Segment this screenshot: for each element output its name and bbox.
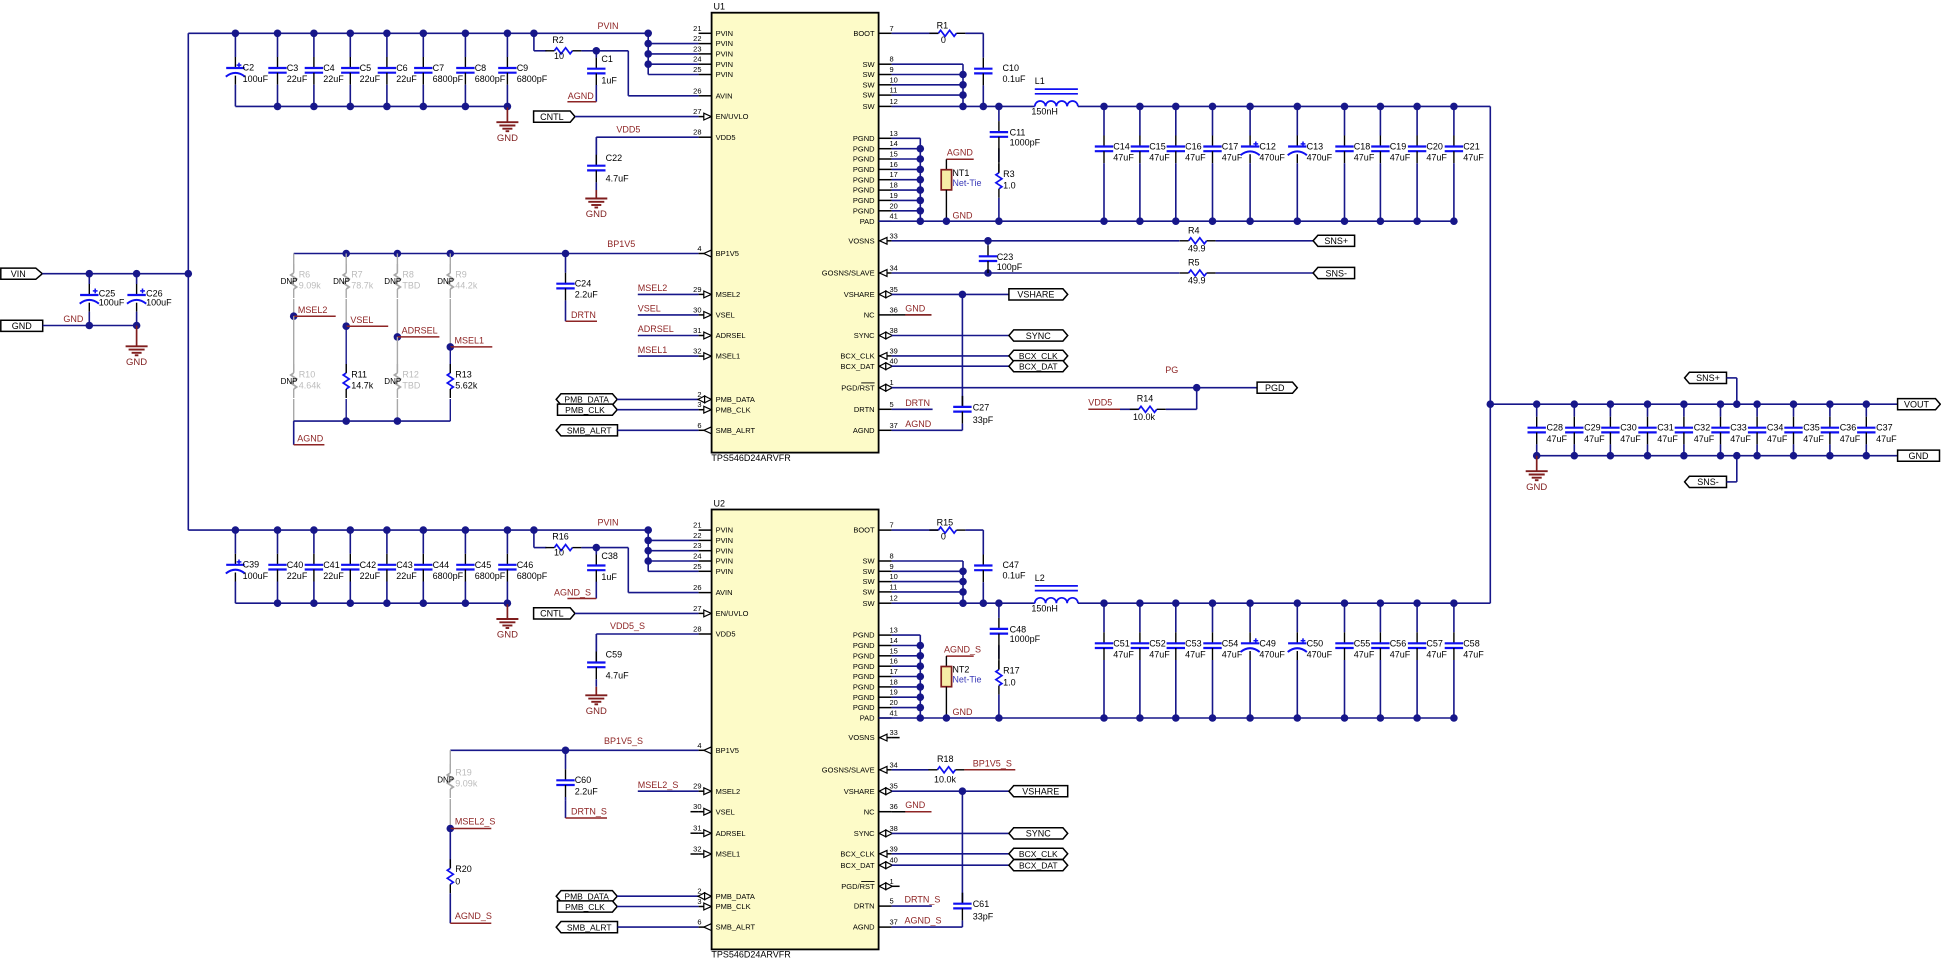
svg-text:PVIN: PVIN — [716, 70, 734, 79]
net label DRTN_S — [892, 905, 932, 907]
svg-text:VSEL: VSEL — [716, 311, 735, 320]
svg-text:470uF: 470uF — [1307, 153, 1333, 163]
svg-text:SMB_ALRT: SMB_ALRT — [567, 426, 612, 436]
resistor R13 — [449, 347, 451, 372]
pin 33 VOSNS — [879, 240, 892, 242]
pin 38 SYNC — [879, 335, 892, 337]
capacitor C2 — [234, 33, 236, 57]
svg-text:DRTN: DRTN — [571, 310, 596, 320]
svg-text:6800pF: 6800pF — [433, 571, 464, 581]
svg-text:25: 25 — [693, 65, 701, 74]
svg-text:17: 17 — [890, 667, 898, 676]
svg-text:MSEL2: MSEL2 — [716, 787, 741, 796]
capacitor C47 — [982, 530, 984, 554]
svg-text:4.7uF: 4.7uF — [606, 174, 630, 184]
pin 16 PGND — [879, 168, 892, 170]
svg-text:PGND: PGND — [853, 662, 875, 671]
port flag BCX_CLK — [1009, 848, 1068, 859]
port flag SNS+ — [1313, 235, 1355, 246]
wire SW bus — [892, 560, 963, 562]
port flag CNTL — [534, 608, 575, 619]
svg-text:C42: C42 — [360, 560, 377, 570]
svg-text:39: 39 — [890, 346, 898, 355]
svg-text:47uF: 47uF — [1657, 434, 1678, 444]
svg-text:PMB_DATA: PMB_DATA — [716, 395, 755, 404]
port flag BCX_DAT — [1009, 361, 1068, 372]
svg-text:VSEL: VSEL — [350, 315, 373, 325]
svg-text:35: 35 — [890, 782, 898, 791]
svg-text:C3: C3 — [287, 63, 299, 73]
capacitor C34 — [1756, 404, 1758, 417]
net label VSEL — [638, 314, 699, 316]
svg-text:AGND: AGND — [853, 923, 875, 932]
svg-text:PGND: PGND — [853, 683, 875, 692]
svg-text:DNP: DNP — [333, 277, 350, 286]
capacitor C16 — [1175, 106, 1177, 135]
pin 28 VDD5 — [699, 136, 712, 138]
wire network bottom rail — [294, 420, 451, 422]
wire AGND_S — [892, 926, 963, 928]
port flag CNTL — [534, 111, 575, 122]
svg-text:C61: C61 — [973, 899, 990, 909]
svg-text:1: 1 — [890, 378, 894, 387]
wire PVIN to R16 — [533, 530, 535, 548]
svg-text:R20: R20 — [455, 864, 472, 874]
capacitor C20 — [1416, 106, 1418, 135]
svg-text:SYNC: SYNC — [854, 331, 875, 340]
svg-text:VOSNS: VOSNS — [848, 733, 874, 742]
net label DRTN_S — [565, 801, 567, 818]
svg-text:100uF: 100uF — [243, 74, 269, 84]
svg-text:C59: C59 — [606, 650, 623, 660]
svg-text:SW: SW — [863, 577, 876, 586]
svg-text:6800pF: 6800pF — [475, 571, 506, 581]
svg-text:22uF: 22uF — [287, 571, 308, 581]
svg-text:TBD: TBD — [402, 281, 421, 291]
svg-text:30: 30 — [693, 305, 701, 314]
svg-text:C31: C31 — [1657, 423, 1674, 433]
capacitor C36 — [1829, 404, 1831, 417]
svg-text:47uF: 47uF — [1113, 153, 1134, 163]
svg-text:40: 40 — [890, 357, 898, 366]
svg-text:ADRSEL: ADRSEL — [638, 324, 674, 334]
svg-text:6: 6 — [697, 918, 701, 927]
pin 19 PGND — [879, 696, 892, 698]
svg-text:C7: C7 — [433, 63, 445, 73]
wire GND flag to caps — [43, 325, 137, 327]
svg-text:47uF: 47uF — [1730, 434, 1751, 444]
svg-text:EN/UVLO: EN/UVLO — [716, 609, 749, 618]
pin 1 PGD/RST — [879, 885, 892, 887]
svg-text:21: 21 — [693, 24, 701, 33]
port flag SYNC — [1009, 828, 1068, 839]
svg-text:0.1uF: 0.1uF — [1003, 571, 1027, 581]
pin 30 VSEL — [699, 811, 712, 813]
pin 27 EN/UVLO — [699, 612, 712, 614]
net label AGND_S — [595, 582, 597, 599]
capacitor C60 — [565, 750, 567, 769]
wire SW rail — [892, 602, 1035, 604]
svg-text:47uF: 47uF — [1584, 434, 1605, 444]
svg-text:PVIN: PVIN — [716, 50, 734, 59]
wire VIN to input bus — [42, 273, 188, 275]
resistor R9 (DNP) — [449, 254, 451, 273]
svg-text:470uF: 470uF — [1259, 650, 1285, 660]
svg-text:38: 38 — [890, 824, 898, 833]
svg-text:10: 10 — [890, 572, 898, 581]
resistor R11 — [345, 326, 347, 372]
port flag PGD — [1257, 382, 1297, 393]
svg-text:100pF: 100pF — [997, 262, 1023, 272]
svg-text:GND: GND — [586, 706, 607, 717]
svg-text:C14: C14 — [1113, 142, 1130, 152]
pin 32 MSEL1 — [699, 355, 712, 357]
svg-text:32: 32 — [693, 845, 701, 854]
svg-text:C11: C11 — [1010, 128, 1026, 138]
svg-text:PGD: PGD — [1265, 383, 1285, 393]
pin 4 BP1V5 — [699, 749, 712, 751]
wire — [581, 50, 596, 52]
node MSEL2 — [290, 312, 298, 320]
node MSEL1 — [447, 343, 455, 351]
svg-text:C9: C9 — [517, 63, 529, 73]
resistor R2 — [554, 48, 572, 54]
net label GND — [892, 811, 932, 813]
resistor R3 — [998, 148, 1000, 173]
capacitor C26 — [136, 274, 138, 284]
wire PVIN to R2 — [533, 33, 535, 51]
svg-text:47uF: 47uF — [1463, 153, 1484, 163]
port flag GND — [1898, 450, 1940, 461]
svg-text:PGND: PGND — [853, 186, 875, 195]
svg-text:23: 23 — [693, 541, 701, 550]
capacitor C22 — [595, 137, 597, 155]
svg-text:PVIN: PVIN — [598, 518, 619, 528]
svg-text:AGND: AGND — [947, 148, 974, 158]
svg-text:1.0: 1.0 — [1003, 677, 1016, 687]
pin 36 NC — [879, 314, 892, 316]
svg-text:BOOT: BOOT — [853, 29, 875, 38]
port flag BCX_DAT — [1009, 860, 1068, 871]
wire GOSNS to R5 — [892, 272, 1180, 274]
svg-text:TPS546D24ARVFR: TPS546D24ARVFR — [711, 950, 791, 960]
svg-text:AGND: AGND — [568, 91, 595, 101]
resistor R4 — [1189, 238, 1207, 244]
svg-text:26: 26 — [693, 583, 701, 592]
resistor R15 — [892, 529, 939, 531]
wire — [581, 547, 596, 549]
svg-text:VSHARE: VSHARE — [844, 290, 875, 299]
pin 4 BP1V5 — [699, 253, 712, 255]
svg-text:TPS546D24ARVFR: TPS546D24ARVFR — [711, 453, 791, 463]
pin 25 PVIN — [699, 570, 712, 572]
svg-text:SNS-: SNS- — [1325, 268, 1347, 278]
capacitor C7 — [422, 33, 424, 57]
pin 15 PGND — [879, 655, 892, 657]
svg-text:3: 3 — [697, 400, 701, 409]
svg-text:PVIN: PVIN — [716, 546, 734, 555]
svg-text:PMB_CLK: PMB_CLK — [716, 405, 751, 414]
capacitor C51 — [1103, 603, 1105, 632]
pin 33 VOSNS — [879, 737, 892, 739]
pin 40 BCX_DAT — [879, 365, 892, 367]
pin 28 VDD5 — [699, 633, 712, 635]
svg-text:C57: C57 — [1426, 638, 1443, 648]
svg-text:40: 40 — [890, 856, 898, 865]
svg-text:24: 24 — [693, 55, 701, 64]
svg-text:SW: SW — [863, 80, 876, 89]
svg-text:0: 0 — [455, 876, 460, 886]
wire pin stub — [691, 832, 699, 834]
svg-text:NC: NC — [864, 807, 875, 816]
svg-text:6800pF: 6800pF — [475, 74, 506, 84]
pin 39 BCX_CLK — [879, 853, 892, 855]
resistor R7 (DNP) — [345, 254, 347, 273]
wire SYNC phase 2 — [892, 832, 1009, 834]
svg-text:33pF: 33pF — [973, 415, 994, 425]
wire input cap bottom rail — [235, 105, 507, 107]
svg-text:GND: GND — [497, 630, 518, 641]
svg-text:47uF: 47uF — [1840, 434, 1861, 444]
svg-text:1000pF: 1000pF — [1010, 634, 1041, 644]
svg-text:6: 6 — [697, 421, 701, 430]
svg-text:GND: GND — [586, 209, 607, 220]
svg-text:13: 13 — [890, 626, 898, 635]
svg-text:37: 37 — [890, 918, 898, 927]
wire — [1216, 240, 1314, 242]
pin 9 SW — [879, 74, 892, 76]
svg-text:C47: C47 — [1003, 560, 1020, 570]
svg-text:GND: GND — [905, 800, 926, 810]
svg-text:150nH: 150nH — [1031, 603, 1058, 613]
svg-text:15: 15 — [890, 646, 898, 655]
svg-text:AGND_S: AGND_S — [905, 916, 942, 926]
svg-text:36: 36 — [890, 305, 898, 314]
svg-text:SW: SW — [863, 557, 876, 566]
pin 20 PGND — [879, 210, 892, 212]
svg-text:C28: C28 — [1547, 423, 1564, 433]
svg-text:100uF: 100uF — [243, 571, 269, 581]
svg-text:PGND: PGND — [853, 134, 875, 143]
ground symbol — [506, 107, 508, 122]
svg-text:BCX_CLK: BCX_CLK — [840, 849, 874, 858]
svg-text:C43: C43 — [396, 560, 413, 570]
svg-text:SNS+: SNS+ — [1696, 373, 1720, 383]
svg-text:27: 27 — [693, 107, 701, 116]
svg-text:6800pF: 6800pF — [517, 571, 548, 581]
svg-text:SNS+: SNS+ — [1324, 236, 1348, 246]
svg-text:VSHARE: VSHARE — [1022, 787, 1059, 797]
svg-text:24: 24 — [693, 552, 701, 561]
svg-text:22uF: 22uF — [360, 571, 381, 581]
svg-text:38: 38 — [890, 326, 898, 335]
wire — [618, 429, 699, 431]
svg-text:GND: GND — [63, 314, 84, 324]
svg-text:8: 8 — [890, 552, 894, 561]
capacitor C32 — [1683, 404, 1685, 417]
pin 25 PVIN — [699, 74, 712, 76]
svg-text:PGND: PGND — [853, 672, 875, 681]
svg-text:9: 9 — [890, 65, 894, 74]
svg-text:39: 39 — [890, 844, 898, 853]
svg-text:18: 18 — [890, 181, 898, 190]
svg-text:R6: R6 — [299, 270, 311, 280]
svg-text:SYNC: SYNC — [1026, 331, 1052, 341]
svg-text:28: 28 — [693, 625, 701, 634]
svg-text:CNTL: CNTL — [540, 112, 564, 122]
pin 13 PGND — [879, 137, 892, 139]
svg-text:PMB_DATA: PMB_DATA — [564, 892, 609, 902]
capacitor C24 — [565, 254, 567, 273]
svg-text:C53: C53 — [1185, 638, 1202, 648]
svg-text:R3: R3 — [1003, 169, 1015, 179]
svg-text:DRTN: DRTN — [905, 398, 930, 408]
port flag SMB_ALRT — [556, 922, 617, 933]
ground symbol — [1536, 456, 1538, 472]
pin 31 ADRSEL — [699, 335, 712, 337]
pin 27 EN/UVLO — [699, 116, 712, 118]
capacitor C58 — [1453, 603, 1455, 632]
port flag SNS- — [1685, 476, 1727, 487]
capacitor C21 — [1453, 106, 1455, 135]
wire PVIN top rail — [188, 32, 648, 34]
capacitor C4 — [313, 33, 315, 57]
svg-text:10: 10 — [554, 548, 564, 558]
svg-text:PMB_DATA: PMB_DATA — [716, 892, 755, 901]
capacitor C53 — [1175, 603, 1177, 632]
svg-text:PMB_CLK: PMB_CLK — [565, 902, 605, 912]
pin 8 SW — [879, 63, 892, 65]
resistor R19 (DNP) — [449, 750, 451, 772]
svg-text:BCX_DAT: BCX_DAT — [1019, 362, 1058, 372]
svg-text:PGND: PGND — [853, 651, 875, 660]
resistor R6 (DNP) — [293, 254, 295, 273]
wire GOSNS to R18 — [892, 769, 929, 771]
pin 17 PGND — [879, 676, 892, 678]
svg-text:SYNC: SYNC — [1026, 829, 1052, 839]
svg-text:78.7k: 78.7k — [351, 281, 374, 291]
svg-text:10: 10 — [554, 51, 564, 61]
svg-text:AGND_S: AGND_S — [554, 588, 591, 598]
svg-text:C19: C19 — [1390, 142, 1407, 152]
svg-text:44.2k: 44.2k — [455, 281, 478, 291]
port flag VSHARE — [1009, 786, 1068, 797]
wire L to output bank — [1078, 602, 1104, 604]
svg-text:C40: C40 — [287, 560, 304, 570]
capacitor C18 — [1344, 106, 1346, 135]
wire output GND rail — [1537, 455, 1898, 457]
svg-text:37: 37 — [890, 421, 898, 430]
svg-text:R13: R13 — [455, 370, 472, 380]
svg-text:MSEL1: MSEL1 — [716, 352, 741, 361]
svg-text:BP1V5_S: BP1V5_S — [973, 758, 1012, 768]
svg-text:AVIN: AVIN — [716, 588, 733, 597]
wire VIN vertical bus — [187, 33, 189, 530]
svg-text:22uF: 22uF — [287, 74, 308, 84]
svg-text:C17: C17 — [1222, 142, 1239, 152]
wire PGND bus — [892, 634, 921, 636]
svg-text:R12: R12 — [402, 370, 419, 380]
wire VOSNS to R4 — [892, 240, 1180, 242]
svg-text:22: 22 — [693, 531, 701, 540]
svg-text:C16: C16 — [1185, 142, 1202, 152]
capacitor C50 — [1296, 603, 1298, 632]
wire BP1V5_S rail — [450, 749, 698, 751]
pin 11 SW — [879, 94, 892, 96]
svg-text:4: 4 — [697, 741, 701, 750]
wire BCX_DAT phase 2 — [892, 864, 1009, 866]
svg-text:PGD/RST: PGD/RST — [841, 882, 875, 891]
svg-text:31: 31 — [693, 326, 701, 335]
node VSEL — [342, 322, 350, 330]
svg-text:26: 26 — [693, 86, 701, 95]
wire SYNC — [892, 335, 1009, 337]
svg-text:C44: C44 — [433, 560, 450, 570]
pin 5 DRTN — [879, 408, 892, 410]
svg-text:9.09k: 9.09k — [455, 779, 478, 789]
svg-text:Net-Tie: Net-Tie — [952, 178, 981, 188]
pin 41 PAD — [879, 220, 892, 222]
capacitor C11 — [998, 106, 1000, 121]
wire SW bus — [892, 63, 963, 65]
svg-text:DRTN: DRTN — [854, 405, 875, 414]
wire VSHARE — [892, 293, 1009, 295]
svg-text:ADRSEL: ADRSEL — [716, 331, 746, 340]
svg-text:10.0k: 10.0k — [1133, 412, 1156, 422]
svg-text:SW: SW — [863, 599, 876, 608]
pin 17 PGND — [879, 179, 892, 181]
svg-text:R5: R5 — [1188, 258, 1200, 268]
svg-text:25: 25 — [693, 562, 701, 571]
svg-text:PGND: PGND — [853, 155, 875, 164]
svg-text:DNP: DNP — [281, 377, 298, 386]
pin 2 PMB_DATA — [699, 398, 712, 400]
svg-text:NT2: NT2 — [952, 665, 969, 675]
svg-text:PG: PG — [1165, 365, 1178, 375]
svg-text:6800pF: 6800pF — [433, 74, 464, 84]
svg-text:DNP: DNP — [384, 377, 401, 386]
svg-text:R14: R14 — [1137, 393, 1154, 403]
pin 3 PMB_CLK — [699, 906, 712, 908]
svg-text:PAD: PAD — [860, 714, 875, 723]
pin 24 PVIN — [699, 560, 712, 562]
resistor R10 (DNP) — [293, 316, 295, 372]
svg-text:C46: C46 — [517, 560, 534, 570]
svg-text:R18: R18 — [937, 754, 954, 764]
wire PGND bus — [892, 137, 921, 139]
capacitor C19 — [1379, 106, 1381, 135]
svg-text:1000pF: 1000pF — [1010, 137, 1041, 147]
svg-text:SW: SW — [863, 70, 876, 79]
resistor R14 — [1120, 408, 1139, 410]
pin 6 SMB_ALRT — [699, 926, 712, 928]
port flag GND — [1, 320, 43, 331]
wire PVIN pins bus — [647, 530, 649, 571]
pin 12 SW — [879, 602, 892, 604]
svg-text:GND: GND — [126, 357, 147, 368]
svg-text:EN/UVLO: EN/UVLO — [716, 112, 749, 121]
svg-text:VSHARE: VSHARE — [1017, 290, 1054, 300]
svg-text:47uF: 47uF — [1620, 434, 1641, 444]
svg-text:47uF: 47uF — [1149, 650, 1170, 660]
svg-text:47uF: 47uF — [1876, 434, 1897, 444]
svg-text:VOUT: VOUT — [1904, 400, 1930, 410]
node MSEL2_S — [447, 825, 455, 833]
svg-text:PVIN: PVIN — [716, 567, 734, 576]
svg-text:47uF: 47uF — [1463, 650, 1484, 660]
svg-text:47uF: 47uF — [1426, 650, 1447, 660]
capacitor C43 — [386, 530, 388, 554]
